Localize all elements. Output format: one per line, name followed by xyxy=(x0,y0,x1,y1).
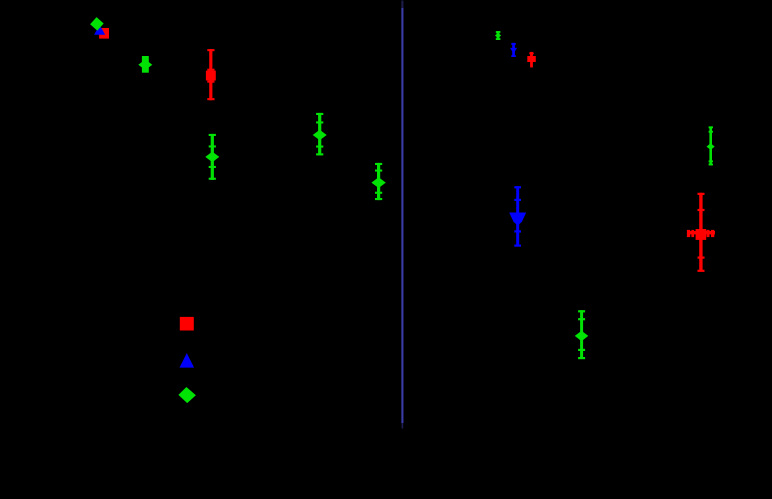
data point P1 red square xyxy=(99,28,109,39)
data point B3 red square with vertical and horizontal double error bars xyxy=(687,193,715,272)
data point P1 blue triangle xyxy=(94,25,105,35)
legend marker red square xyxy=(180,317,194,331)
data point S4 small green diamond with double error bar xyxy=(707,126,715,165)
data point S3 small red square with error bar xyxy=(527,52,536,68)
data point P5 green diamond with double error bar xyxy=(313,113,327,156)
legend marker blue triangle xyxy=(180,353,195,368)
data point B1 blue down-triangle with double error bar xyxy=(509,186,526,247)
data point P3 red square with double error bar xyxy=(206,49,216,100)
data point P4 green diamond with double error bar xyxy=(205,134,219,180)
data point S2 small blue down-triangle with error bar xyxy=(510,43,517,57)
data point P1 green diamond xyxy=(90,17,104,31)
data point S1 small green diamond with error bar xyxy=(495,31,501,40)
legend marker green diamond xyxy=(178,387,196,403)
data point B2 green diamond with double error bar xyxy=(575,310,589,359)
data point P6 green diamond with double error bar xyxy=(371,163,385,200)
separator line xyxy=(401,1,403,429)
data point P2 green diamond with error bar xyxy=(138,56,152,73)
